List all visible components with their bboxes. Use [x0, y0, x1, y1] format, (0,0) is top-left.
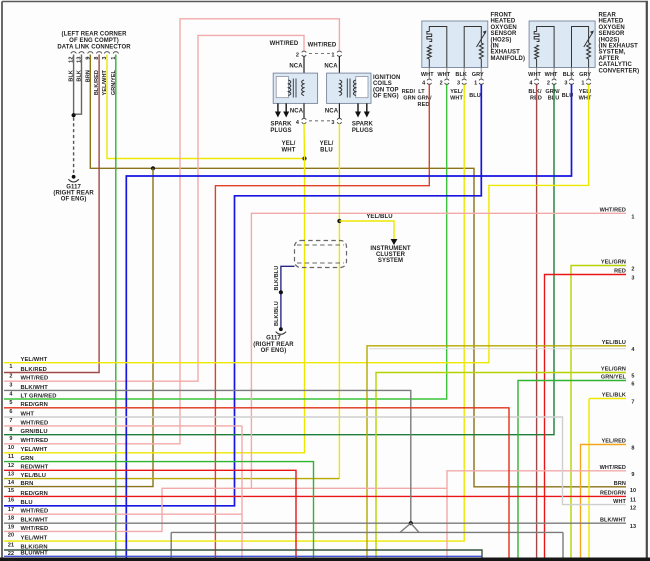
wire BLK/WHT from left wire 4	[4, 390, 411, 523]
svg-text:OF ENG): OF ENG)	[61, 197, 87, 203]
svg-text:WHT: WHT	[282, 148, 296, 154]
svg-text:EXHAUST: EXHAUST	[491, 50, 521, 56]
svg-text:3: 3	[564, 81, 567, 87]
svg-text:WHT/RED: WHT/RED	[270, 41, 299, 47]
svg-text:OF ENG COMPT): OF ENG COMPT)	[69, 38, 119, 44]
right wire 3 RED	[545, 275, 627, 558]
svg-text:18: 18	[8, 515, 14, 521]
svg-text:GRY: GRY	[472, 72, 484, 78]
svg-text:REAR: REAR	[599, 13, 617, 19]
svg-text:(ON TOP: (ON TOP	[373, 87, 399, 93]
wire WHT/RED left wire 3 to coil pin2	[4, 35, 304, 381]
svg-text:AFTER: AFTER	[599, 56, 620, 62]
svg-text:9: 9	[9, 436, 12, 442]
wire YEL/WHT front pin3 to left wire 21	[4, 85, 464, 542]
wire BLU rear pin3	[126, 85, 571, 558]
spark plug leads right coil	[357, 103, 359, 111]
data link connector pins	[71, 52, 76, 54]
svg-text:HEATED: HEATED	[491, 19, 516, 25]
svg-text:1: 1	[474, 81, 477, 87]
svg-text:YEL/WHT: YEL/WHT	[21, 357, 48, 363]
wire LT GRN/RED front pin2 to left wire 5	[4, 85, 447, 400]
svg-text:2: 2	[631, 267, 634, 273]
svg-text:WHT/RED: WHT/RED	[21, 376, 49, 382]
wire BLK/WHT splice branches	[400, 523, 419, 532]
svg-text:YEL/: YEL/	[579, 89, 592, 95]
svg-text:COILS: COILS	[373, 81, 392, 87]
svg-text:BLU: BLU	[469, 93, 481, 99]
svg-text:BRN: BRN	[614, 481, 626, 487]
svg-text:YEL/BLU: YEL/BLU	[602, 340, 626, 346]
coil pin 3	[337, 118, 341, 119]
svg-text:SYSTEM: SYSTEM	[378, 258, 403, 264]
svg-text:15: 15	[8, 488, 14, 494]
svg-text:YEL/: YEL/	[282, 141, 296, 147]
svg-text:10: 10	[8, 445, 14, 451]
svg-text:BLK/BLU: BLK/BLU	[274, 266, 280, 291]
svg-text:1: 1	[331, 53, 334, 59]
svg-text:BLK/BLU: BLK/BLU	[274, 301, 280, 326]
svg-text:17: 17	[8, 507, 14, 513]
svg-text:(LEFT REAR CORNER: (LEFT REAR CORNER	[61, 32, 127, 38]
svg-text:SENSOR: SENSOR	[491, 31, 518, 37]
svg-text:WHT: WHT	[450, 96, 463, 102]
svg-text:3: 3	[457, 81, 460, 87]
svg-text:YEL/BLK: YEL/BLK	[602, 393, 626, 399]
wire BLK/RED from DLC pin8 to left wire 2	[4, 55, 99, 373]
svg-text:1: 1	[631, 214, 634, 220]
wire BRN branch to left wire 15	[4, 168, 153, 486]
shield inner dash bottom	[297, 262, 344, 264]
svg-text:(RIGHT REAR: (RIGHT REAR	[53, 191, 94, 197]
wire coil1 primary lead	[338, 57, 340, 74]
wire RED/GRN front pin4	[215, 85, 429, 558]
wire YEL/WHT rear pin1 to left wire 1	[4, 85, 589, 363]
svg-text:IGNITION: IGNITION	[373, 75, 400, 81]
left wire 8 WHT/RED	[4, 425, 242, 427]
svg-text:YEL/: YEL/	[450, 89, 463, 95]
wire BLK pin13	[75, 55, 82, 115]
svg-text:3: 3	[9, 382, 12, 388]
right wire 4 YEL/BLU	[367, 346, 626, 558]
svg-text:(IN EXHAUST: (IN EXHAUST	[599, 44, 639, 50]
right wire 1 WHT/RED	[251, 213, 626, 488]
wire dashed between coil pins 3-4	[309, 120, 334, 122]
wire BLK/WHT lower bus	[171, 531, 563, 533]
right wire 13 BLK/WHT	[4, 522, 626, 524]
svg-text:BLK/WHT: BLK/WHT	[21, 385, 49, 391]
wire BLK pin12	[73, 55, 75, 115]
svg-text:(RIGHT REAR: (RIGHT REAR	[253, 342, 294, 348]
shielded cable dashed box	[295, 241, 347, 268]
ignition coil 2 (right)	[327, 73, 371, 103]
svg-text:SPARK: SPARK	[352, 122, 374, 128]
svg-text:6: 6	[631, 382, 634, 388]
svg-text:BLK/WHT: BLK/WHT	[600, 517, 627, 523]
svg-text:PLUGS: PLUGS	[352, 128, 373, 134]
rear heated oxygen sensor HO2S	[529, 21, 595, 68]
coil pin 4	[302, 118, 306, 119]
svg-text:6: 6	[9, 409, 12, 415]
svg-text:(IN: (IN	[491, 44, 499, 50]
svg-text:RED/WHT: RED/WHT	[21, 465, 49, 471]
node YEL/WHT junction	[302, 156, 306, 160]
front heated oxygen sensor HO2S	[422, 21, 488, 68]
svg-text:BLK/: BLK/	[528, 89, 542, 95]
svg-text:YEL/GRN: YEL/GRN	[601, 260, 626, 266]
svg-text:11: 11	[630, 497, 636, 503]
right wire 6 GRN/YEL	[518, 381, 626, 558]
svg-text:G117: G117	[66, 184, 81, 190]
svg-text:8: 8	[9, 427, 12, 433]
node BRN junction	[151, 166, 155, 170]
svg-text:BLK/RED: BLK/RED	[21, 367, 47, 373]
svg-text:WHT/RED: WHT/RED	[21, 509, 49, 515]
svg-text:11: 11	[8, 454, 14, 460]
svg-text:YEL/BLU: YEL/BLU	[21, 473, 47, 479]
wire coil2 primary lead	[303, 57, 305, 74]
svg-text:YEL/: YEL/	[320, 141, 334, 147]
right wire 8 YEL/RED	[581, 445, 627, 558]
svg-text:OXYGEN: OXYGEN	[491, 25, 517, 31]
svg-text:23: 23	[8, 558, 14, 561]
wire WHT/RED left wire 10 to coil pin1	[4, 19, 339, 444]
svg-text:WHT/RED: WHT/RED	[21, 526, 49, 532]
ground G117 center	[276, 332, 286, 335]
svg-text:WHT: WHT	[579, 96, 592, 102]
svg-text:MANIFOLD): MANIFOLD)	[491, 56, 526, 62]
svg-text:NCA: NCA	[324, 64, 338, 70]
svg-text:FRONT: FRONT	[491, 13, 512, 19]
svg-text:(HO2S): (HO2S)	[491, 37, 512, 43]
wire GRN/BLU rear pin2 to left wire 9	[4, 85, 554, 435]
spark plug leads left coil	[277, 103, 279, 111]
node ground dot	[72, 175, 76, 179]
node BLK/BLU junction	[279, 290, 283, 294]
svg-text:NCA: NCA	[289, 64, 303, 70]
svg-text:2: 2	[296, 53, 299, 59]
svg-text:GRY: GRY	[579, 72, 591, 78]
svg-text:PLUGS: PLUGS	[270, 128, 291, 134]
wire YEL/WHT coil pin4 to left wire 11	[303, 124, 306, 159]
svg-text:SYSTEM,: SYSTEM,	[599, 50, 626, 56]
ground G117 left	[68, 179, 78, 182]
wire dashed between coil pins 1-2	[309, 53, 334, 55]
svg-text:OF ENG): OF ENG)	[373, 94, 399, 100]
svg-text:5: 5	[631, 374, 634, 380]
svg-text:RED/GRN: RED/GRN	[600, 491, 626, 497]
svg-text:19: 19	[8, 524, 14, 530]
right wire 4 shadow WHT	[369, 348, 626, 350]
svg-text:WHT/RED: WHT/RED	[21, 438, 49, 444]
left wire 23 BLU/WHT	[4, 555, 482, 557]
svg-text:12: 12	[8, 463, 14, 469]
left wire 13 RED/WHT	[4, 470, 296, 557]
left wire 12 GRN	[4, 462, 314, 558]
svg-text:14: 14	[8, 480, 15, 486]
svg-text:GRN: GRN	[403, 96, 416, 102]
svg-text:10: 10	[630, 488, 636, 494]
node YEL/BLU junction	[337, 219, 341, 223]
svg-text:LT GRN/RED: LT GRN/RED	[21, 393, 57, 399]
svg-text:RED: RED	[418, 102, 430, 108]
right wire 12 WHT	[4, 417, 626, 505]
node BLK junction	[72, 113, 76, 117]
svg-text:7: 7	[631, 400, 634, 406]
svg-text:BLU/WHT: BLU/WHT	[21, 551, 49, 557]
node BLK/WHT junction	[409, 521, 413, 525]
svg-text:WHT: WHT	[21, 411, 35, 417]
svg-text:BLK: BLK	[563, 72, 575, 78]
svg-text:2: 2	[440, 81, 443, 87]
wire YEL/WHT from DLC pin3	[107, 55, 305, 159]
right wire 2 YEL/GRN	[571, 266, 626, 558]
left wire 22 BLK/GRN	[4, 550, 482, 558]
wire BLK dashed to ground	[73, 118, 75, 176]
svg-text:YEL/WHT: YEL/WHT	[21, 536, 48, 542]
svg-text:LT: LT	[418, 89, 425, 95]
svg-text:1: 1	[9, 364, 12, 370]
wire BLK/RED rear pin4	[536, 85, 538, 558]
left wire 18 WHT/RED	[4, 513, 242, 515]
wire BLK/BLU shield drain	[281, 266, 295, 328]
wire YEL/BLU coil pin3 down	[338, 124, 340, 479]
wire GRN/YEL from DLC pin1	[115, 55, 117, 558]
svg-text:2: 2	[547, 81, 550, 87]
svg-text:GRN: GRN	[21, 456, 34, 462]
right wire 5 YEL/GRN	[376, 373, 626, 558]
svg-text:CONVERTER): CONVERTER)	[599, 68, 640, 74]
right wire 7 YEL/BLK	[589, 398, 626, 400]
ignition coil 1 (left)	[273, 73, 317, 103]
svg-text:YEL/RED: YEL/RED	[601, 439, 626, 445]
wire coil2 secondary lead	[303, 103, 305, 118]
svg-text:NCA: NCA	[290, 109, 304, 115]
svg-text:RED/GRN: RED/GRN	[21, 491, 48, 497]
svg-text:16: 16	[8, 498, 14, 504]
svg-text:5: 5	[9, 400, 12, 406]
svg-text:1: 1	[581, 81, 584, 87]
coil pin 2	[302, 51, 306, 52]
svg-text:BLK/WHT: BLK/WHT	[21, 518, 49, 524]
svg-text:BLU: BLU	[21, 500, 33, 506]
svg-text:BLU: BLU	[320, 148, 333, 154]
wire BLU front pin1 to left wire 17	[4, 85, 481, 506]
svg-text:WHT: WHT	[613, 499, 626, 505]
svg-text:3: 3	[631, 276, 634, 282]
wire coil1 secondary lead	[338, 103, 340, 118]
svg-text:RED: RED	[614, 269, 626, 275]
svg-text:SPARK: SPARK	[270, 122, 292, 128]
svg-text:NCA: NCA	[325, 109, 339, 115]
svg-text:OF ENG): OF ENG)	[261, 348, 287, 354]
svg-text:WHT/RED: WHT/RED	[21, 420, 49, 426]
coil pin 1	[337, 51, 341, 52]
svg-text:8: 8	[631, 446, 634, 452]
svg-text:GRN/YEL: GRN/YEL	[601, 375, 627, 381]
right wire 11 RED/GRN	[4, 495, 626, 497]
svg-text:YEL/BLU: YEL/BLU	[366, 214, 392, 220]
svg-text:2: 2	[9, 374, 12, 380]
svg-text:WHT: WHT	[421, 72, 434, 78]
svg-text:YEL/WHT: YEL/WHT	[21, 447, 48, 453]
svg-text:GRN/BLU: GRN/BLU	[21, 429, 48, 435]
svg-text:WHT: WHT	[437, 72, 450, 78]
right wire 9 WHT/RED	[447, 471, 626, 558]
svg-text:9: 9	[631, 472, 634, 478]
svg-text:GRN/: GRN/	[545, 89, 560, 95]
svg-text:WHT/RED: WHT/RED	[308, 43, 337, 49]
svg-text:WHT: WHT	[545, 72, 558, 78]
wire YEL/BLU left wire 14	[4, 478, 339, 480]
svg-text:CATALYTIC: CATALYTIC	[599, 62, 633, 68]
svg-text:13: 13	[8, 472, 14, 478]
svg-text:BRN: BRN	[21, 481, 34, 487]
svg-text:12: 12	[630, 506, 636, 512]
svg-text:G117: G117	[266, 336, 281, 342]
svg-text:7: 7	[9, 418, 12, 424]
node BLK/BLU ground dot	[279, 327, 283, 331]
svg-text:3: 3	[331, 120, 334, 126]
svg-text:SENSOR: SENSOR	[599, 31, 626, 37]
wire WHT/RED link to left wire 20	[4, 488, 447, 531]
shield inner dash top	[297, 244, 344, 246]
svg-text:BLK: BLK	[455, 72, 467, 78]
svg-text:13: 13	[630, 524, 636, 530]
svg-text:WHT/RED: WHT/RED	[600, 208, 626, 214]
svg-text:WHT: WHT	[528, 72, 541, 78]
svg-text:YEL/GRN: YEL/GRN	[601, 367, 626, 373]
svg-text:RED/: RED/	[402, 89, 416, 95]
wire BRN from DLC pin9	[90, 55, 626, 487]
svg-text:RED/GRN: RED/GRN	[21, 402, 48, 408]
svg-text:BLK/GRN: BLK/GRN	[21, 544, 48, 550]
instrument cluster arrow	[391, 239, 398, 245]
svg-text:DATA LINK CONNECTOR: DATA LINK CONNECTOR	[57, 45, 131, 51]
svg-text:20: 20	[8, 533, 14, 539]
svg-text:WHT/RED: WHT/RED	[600, 465, 626, 471]
svg-text:OXYGEN: OXYGEN	[599, 25, 625, 31]
svg-text:(HO2S): (HO2S)	[599, 37, 620, 43]
svg-text:21: 21	[8, 542, 14, 548]
wire YEL/BLU to instrument cluster	[339, 221, 394, 240]
svg-text:HEATED: HEATED	[599, 19, 624, 25]
left wire 6 RED/GRN	[4, 408, 509, 558]
